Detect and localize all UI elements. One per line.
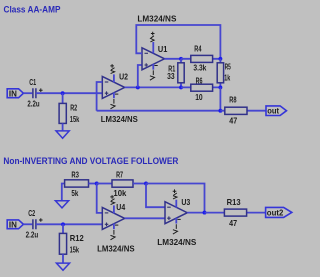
junction R1 top (179, 57, 183, 61)
junction U2 out (136, 85, 140, 89)
svg-text:47: 47 (229, 116, 237, 126)
svg-text:10k: 10k (113, 188, 126, 198)
U2 V- power pin (111, 93, 119, 109)
svg-text:R7: R7 (116, 170, 123, 180)
svg-text:15k: 15k (70, 114, 80, 124)
ground under R12 (56, 263, 69, 270)
resistor R13 (205, 209, 266, 216)
svg-text:U4: U4 (116, 202, 125, 212)
U3 V- power pin (173, 218, 181, 234)
wire U2 output (125, 86, 181, 88)
wire R2 to ground (62, 123, 64, 130)
capacitor C1 (33, 88, 36, 98)
capacitor C2 (33, 219, 36, 229)
wire feedback rail (bottom) (97, 110, 221, 112)
wire U2 out to U1 plus (138, 65, 142, 87)
ground under R2 (56, 131, 69, 138)
wire IN to C1 (23, 92, 32, 94)
resistor R4 (181, 55, 220, 62)
svg-text:2.2u: 2.2u (27, 98, 39, 108)
wire node B to R12 (62, 224, 64, 233)
U1 V- power pin (150, 64, 158, 80)
svg-text:R13: R13 (227, 197, 241, 207)
svg-text:1k: 1k (224, 72, 230, 82)
op-amp U4 (102, 207, 124, 229)
svg-text:33: 33 (167, 71, 175, 81)
wire R5 node down to out rail (219, 87, 221, 110)
svg-text:C2: C2 (28, 208, 35, 218)
wire node A to R2 (62, 93, 64, 103)
C1 polarity + (39, 88, 43, 92)
port IN (top) (7, 88, 23, 98)
svg-text:LM324/NS: LM324/NS (101, 114, 138, 124)
svg-text:LM324/NS: LM324/NS (157, 237, 196, 247)
svg-text:Class AA-AMP: Class AA-AMP (4, 5, 61, 15)
svg-text:R4: R4 (194, 44, 201, 54)
op-amp U3 (165, 202, 187, 224)
port IN (bottom) (7, 219, 23, 229)
junction U3 out (203, 211, 207, 215)
junction R7 right (144, 182, 148, 186)
wire U4 output to U3 plus (125, 217, 165, 219)
wire feedback rail to U3 out (146, 184, 205, 213)
svg-text:IN: IN (9, 88, 17, 98)
svg-text:47: 47 (229, 218, 237, 228)
svg-text:Non-INVERTING AND VOLTAGE FOLL: Non-INVERTING AND VOLTAGE FOLLOWER (3, 156, 178, 166)
svg-text:LM324/NS: LM324/NS (97, 244, 135, 254)
svg-text:10: 10 (195, 92, 203, 102)
wire C2 to node B (36, 223, 102, 225)
svg-text:R2: R2 (70, 103, 77, 113)
U3 plus input mark (167, 216, 171, 220)
op-amp U1 (142, 48, 165, 70)
U1 minus input mark (145, 52, 149, 54)
svg-text:R8: R8 (229, 95, 236, 105)
svg-text:out2: out2 (267, 207, 284, 217)
resistor R8 (220, 107, 266, 114)
svg-text:2.2u: 2.2u (26, 230, 39, 240)
svg-text:U1: U1 (158, 44, 168, 54)
port out2 (266, 207, 292, 217)
op-amp U2 (102, 76, 124, 98)
junction out rail (218, 109, 222, 113)
C2 polarity + (39, 218, 43, 222)
wire R12 to ground (62, 254, 64, 263)
junction R3/R7 (95, 182, 99, 186)
U3 V+ power pin (173, 189, 177, 207)
U4 V- power pin (111, 224, 119, 240)
resistor R7 (97, 180, 146, 187)
U4 V+ power pin (110, 195, 114, 213)
wire IN to C2 (23, 223, 32, 225)
svg-text:U2: U2 (119, 71, 128, 81)
wire U1 output (165, 58, 182, 60)
resistor R12 (59, 233, 66, 254)
U4 plus input mark (105, 223, 109, 227)
svg-text:R12: R12 (70, 233, 84, 243)
wire U3 output (187, 212, 204, 214)
U4 minus input mark (105, 212, 109, 214)
junction R6/R5 (218, 85, 222, 89)
U3 minus input mark (167, 206, 171, 208)
U2 minus input mark (105, 81, 109, 83)
junction node B (61, 222, 65, 226)
wire node to U4 minus (97, 184, 103, 213)
wire U2 minus stub (97, 82, 103, 111)
ground under R3 (55, 201, 68, 208)
svg-text:5k: 5k (71, 188, 78, 198)
svg-text:15k: 15k (70, 244, 80, 254)
svg-text:R6: R6 (196, 75, 203, 85)
svg-text:out: out (267, 105, 279, 115)
svg-text:R5: R5 (225, 62, 231, 72)
svg-text:C1: C1 (29, 77, 36, 87)
svg-text:R3: R3 (71, 169, 79, 179)
U2 V+ power pin (110, 64, 114, 82)
resistor R2 (59, 103, 66, 123)
svg-text:IN: IN (9, 219, 17, 229)
U1 V+ power pin (150, 32, 154, 54)
wire U1 minus feedback to top rail (136, 25, 220, 59)
resistor R6 (181, 84, 220, 91)
resistor R1 (178, 59, 184, 88)
svg-text:U3: U3 (181, 197, 190, 207)
svg-text:LM324/NS: LM324/NS (137, 14, 176, 24)
U1 plus input mark (145, 63, 149, 67)
wire C1 to node A (36, 92, 102, 94)
wire R7 to U3 minus (146, 184, 165, 208)
junction R1 bottom (179, 85, 183, 89)
junction R4/R5 (218, 57, 222, 61)
resistor R5 (217, 59, 223, 88)
port out (266, 105, 287, 115)
svg-text:3.3k: 3.3k (193, 63, 206, 73)
resistor R3 (62, 180, 97, 201)
U2 plus input mark (105, 91, 109, 95)
junction node A (61, 91, 65, 95)
